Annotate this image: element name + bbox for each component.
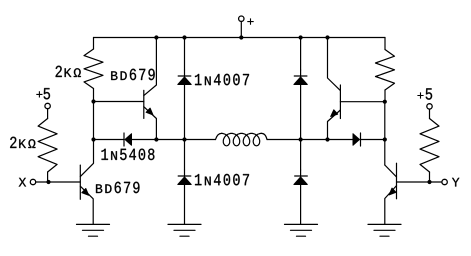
wire Q3 base [340, 101, 384, 103]
terminal X input [30, 179, 35, 184]
node right end of diode row [383, 137, 387, 141]
node junction on rail at right diode column [299, 35, 303, 39]
ground below Q2 emitter [77, 224, 110, 236]
label Y [452, 178, 459, 187]
node right diode column / inductor row [299, 137, 303, 141]
terminal +5 right [427, 104, 432, 109]
wire diode row: D1 to left diode column [132, 139, 185, 141]
terminal + supply [239, 16, 244, 21]
wire D3 anode to ground [184, 185, 186, 225]
node junction on rail at Q1 collector [154, 35, 158, 39]
wire + terminal stem [240, 22, 242, 38]
transistor Q2 BD679 lower-left [80, 140, 93, 225]
diode D6 (mirrored, unlabeled) [353, 133, 361, 146]
wire D2 anode down to diode row [184, 85, 186, 140]
label 2K ohm (R1) [56, 66, 81, 77]
transistor Q1 BD679 upper-left [144, 38, 157, 140]
terminal Y output [442, 179, 447, 184]
wire inductor row left lead [185, 139, 216, 141]
ground below D5 [285, 224, 318, 236]
wire node down to diode row [93, 102, 95, 140]
node junction on rail at left diode column [182, 35, 186, 39]
wire D4 anode down to inductor row [300, 85, 302, 140]
label X [19, 178, 26, 187]
wire diode row: Q3 emitter to D6 [328, 139, 354, 141]
transistor Q4 lower-right (mirrored) [385, 163, 397, 224]
wire top supply rail [94, 37, 386, 39]
resistor R1 2K ohm upper-left [93, 38, 95, 50]
diode D3 1N4007 lower [178, 170, 191, 185]
ground below Q4 emitter [368, 224, 401, 236]
wire left diode column from rail [184, 38, 186, 71]
wire diode row: D6 to right column [361, 139, 385, 141]
node Q1 emitter on diode row [154, 137, 158, 141]
node junction on rail at + terminal [239, 35, 243, 39]
wire right diode column from rail [300, 38, 302, 71]
node left end of diode row [91, 137, 95, 141]
label 1N4007 (D2) [195, 74, 249, 85]
terminal +5 left [45, 103, 50, 108]
label BD679 (Q1) [111, 69, 154, 80]
label +5 (left) [36, 91, 42, 97]
wire diode row: node to D1 [94, 139, 125, 141]
wire inductor row right lead [267, 139, 301, 141]
wire Q4 base to Y [397, 181, 442, 183]
wire D5 anode to ground [300, 185, 302, 225]
wire right column down [384, 102, 386, 140]
resistor R4 right [429, 109, 431, 118]
inductor L1 [216, 133, 268, 145]
label + [247, 18, 253, 24]
label BD679 (Q2) [96, 182, 139, 193]
label 1N4007 (D3) [195, 174, 249, 185]
label 2K ohm (R2) [10, 137, 35, 148]
wire X line to Q2 base [36, 181, 80, 183]
ground below D3 [168, 224, 201, 236]
wire down to Q4 collector elbow [384, 140, 386, 166]
node left diode column / inductor row [182, 137, 186, 141]
wire inductor row to Q3 emitter [301, 139, 328, 141]
transistor Q3 upper-right (mirrored) [328, 38, 341, 140]
label +5 (right) [417, 92, 423, 98]
diode D4 upper right column [294, 70, 307, 85]
node R1 bottom / Q1 base feed [91, 99, 95, 103]
node R3 bottom / Q3 base [383, 100, 387, 104]
wire Q1 base [94, 101, 144, 103]
diode D2 1N4007 upper [178, 70, 191, 85]
node R2 bottom on X line [46, 180, 50, 184]
node Q3 emitter on diode row [325, 137, 329, 141]
diode D1 1N5408 [124, 133, 132, 146]
wire column to lower diode D5 [300, 140, 302, 171]
node R4 bottom on Y line [427, 180, 431, 184]
wire column to lower diode [184, 140, 186, 171]
diode D5 lower right column [294, 170, 307, 185]
node junction on rail at Q3 collector [325, 35, 329, 39]
resistor R3 upper-right [384, 38, 386, 50]
label 1N5408 (D1) [102, 149, 155, 160]
resistor R2 2K ohm left [47, 109, 49, 119]
